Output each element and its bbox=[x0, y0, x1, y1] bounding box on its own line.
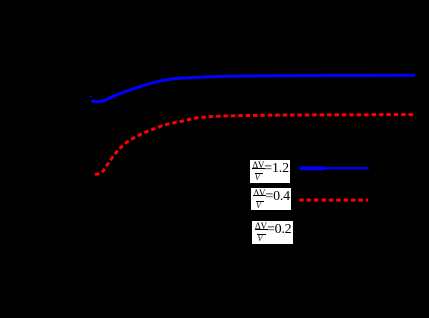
legend label box 3: dV/V=0.2 bbox=[252, 221, 293, 244]
legend label box 2: dV/V=0.4 bbox=[251, 188, 291, 210]
blue plateau bump bbox=[376, 74, 387, 75]
curve red dashed: dV/V=0.4 bbox=[95, 115, 413, 175]
curve blue solid: dV/V=1.2 bbox=[93, 75, 415, 101]
legend sample line red dashed bbox=[299, 199, 368, 202]
legend sample line blue bbox=[300, 167, 325, 171]
legend label box 1: dV/V=1.2 bbox=[250, 160, 291, 183]
first data point blue bbox=[90, 96, 92, 97]
